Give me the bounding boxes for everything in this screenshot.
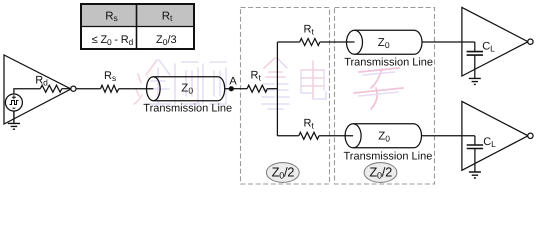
transmission line TL3 — [345, 124, 421, 148]
wire bubble to Rs — [76, 88, 101, 90]
dashed box Z0/2 resistors — [241, 8, 330, 185]
branch vertical wire — [276, 42, 278, 136]
ground receiver2 — [469, 172, 481, 178]
svg-text:Rt: Rt — [304, 24, 315, 37]
resistor Rt1 — [247, 85, 267, 92]
dashed box Z0/2 lines — [335, 8, 435, 185]
transmission line TL2 — [347, 30, 423, 54]
wm char3 — [203, 62, 226, 104]
wire tline2 to receiver1 — [422, 41, 475, 43]
wire Rt1 to branch — [267, 88, 277, 90]
receiver U2 triangle — [462, 7, 528, 76]
wm char5 — [301, 61, 326, 99]
svg-text:CL: CL — [482, 40, 495, 53]
wm char2 — [175, 62, 200, 104]
capacitor CL bottom lower stem — [474, 149, 476, 172]
label Z0/2 right — [364, 163, 397, 183]
svg-text:Rt: Rt — [251, 70, 262, 83]
resistor Rs — [101, 85, 119, 92]
capacitor CL top lower stem — [474, 55, 476, 78]
svg-text:CL: CL — [483, 136, 496, 149]
svg-text:Z0: Z0 — [378, 37, 390, 50]
receiver U3 triangle — [462, 101, 528, 170]
svg-text:Transmission Line: Transmission Line — [344, 57, 433, 69]
svg-text:Transmission Line: Transmission Line — [344, 150, 433, 162]
wm radical marks — [134, 74, 142, 104]
wire branch to Rt3 (bottom) — [277, 135, 298, 137]
receiver U2 bubble — [528, 39, 533, 44]
source plus sign — [12, 95, 16, 99]
resistor Rd — [40, 85, 62, 92]
svg-text:Rt: Rt — [162, 10, 173, 23]
svg-text:Transmission Line: Transmission Line — [143, 102, 232, 114]
ground driver — [8, 111, 20, 129]
source square-wave glyph — [10, 101, 19, 105]
wm char1 — [146, 60, 171, 104]
label Z0/2 left — [266, 163, 299, 183]
table Rs/Rt — [81, 4, 194, 49]
node A junction — [229, 87, 233, 91]
wire Rt3 to tline3 — [319, 135, 353, 137]
capacitor CL top plates — [467, 52, 483, 56]
driver output bubble — [71, 86, 76, 91]
svg-text:A: A — [229, 76, 237, 88]
resistor Rt2 — [300, 39, 320, 46]
wm char4 — [262, 58, 289, 109]
ground receiver1 — [469, 78, 481, 84]
receiver U3 bubble — [528, 133, 533, 138]
svg-text:Rs: Rs — [105, 10, 118, 23]
source V1 circle — [5, 94, 22, 111]
wire Rs to tline1 — [119, 88, 154, 90]
wire Rt2 to tline2 — [320, 41, 355, 43]
wire tline3 to receiver2 — [422, 135, 475, 137]
svg-text:≤ Z0 - Rd: ≤ Z0 - Rd — [92, 34, 134, 47]
wire Rd to bubble — [62, 88, 71, 90]
svg-text:Rs: Rs — [104, 70, 116, 83]
watermark — [134, 58, 403, 109]
driver U1 triangle — [4, 55, 71, 124]
wm char6 — [354, 68, 403, 109]
wire branch to Rt2 (top) — [277, 41, 299, 43]
svg-text:Rt: Rt — [304, 118, 315, 131]
wire source to Rd — [14, 89, 40, 94]
wire tline1 to node A — [225, 88, 240, 90]
capacitor CL top stem — [474, 42, 476, 51]
capacitor CL bottom stem — [474, 136, 476, 145]
svg-text:Z0/3: Z0/3 — [156, 34, 177, 47]
resistor Rt3 — [299, 132, 319, 139]
source minus sign — [12, 107, 15, 109]
transmission line TL1 — [147, 77, 225, 101]
svg-text:Z0: Z0 — [378, 131, 390, 144]
wire to Rt1 — [240, 88, 247, 90]
capacitor CL bottom plates — [467, 145, 483, 149]
